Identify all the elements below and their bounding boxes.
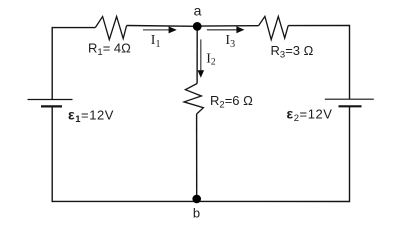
- wire R2 down to node b: [196, 114, 198, 201]
- svg-text:a: a: [194, 3, 202, 19]
- resistor R3: [259, 16, 289, 39]
- resistor R1: [95, 17, 126, 40]
- wire node a to R3: [197, 25, 258, 27]
- resistor R2: [184, 84, 203, 115]
- current arrow I1: [143, 26, 177, 33]
- wire left vertical upper: [51, 27, 53, 100]
- wire bottom horizontal: [52, 200, 350, 202]
- svg-text:ε1=12V: ε1=12V: [68, 107, 114, 125]
- wire R3 to top-right corner: [288, 25, 349, 27]
- svg-text:b: b: [193, 206, 200, 221]
- current arrow I2: [198, 39, 205, 77]
- battery E2 short plate: [339, 105, 362, 107]
- current arrow I3: [207, 26, 245, 33]
- wire node a down to R2: [196, 26, 198, 83]
- wire right vertical upper: [349, 25, 351, 99]
- svg-text:R1= 4Ω: R1= 4Ω: [88, 40, 131, 58]
- battery E2 long plate: [325, 98, 374, 100]
- wire top-left horizontal: [52, 27, 95, 29]
- node a junction dot: [193, 22, 202, 31]
- wire left vertical lower: [51, 106, 53, 202]
- svg-text:R2=6 Ω: R2=6 Ω: [210, 93, 253, 111]
- wire R1 to node a: [127, 25, 198, 28]
- battery E1 long plate: [28, 99, 73, 101]
- svg-text:I3: I3: [225, 33, 235, 50]
- svg-text:I1: I1: [151, 33, 161, 50]
- node b junction dot: [192, 195, 201, 204]
- svg-text:I2: I2: [206, 51, 216, 67]
- svg-text:R3=3 Ω: R3=3 Ω: [271, 43, 314, 61]
- svg-text:ε2=12V: ε2=12V: [287, 106, 333, 124]
- wire right vertical lower: [349, 106, 351, 202]
- battery E1 short plate: [41, 105, 62, 107]
